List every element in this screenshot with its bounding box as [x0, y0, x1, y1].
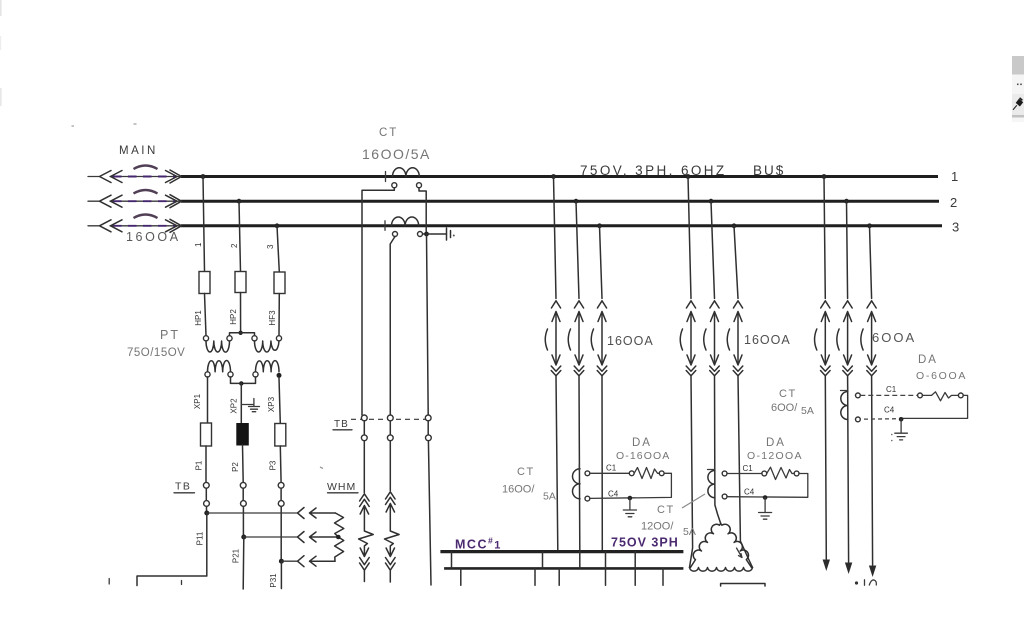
terminal TB P3 upper — [278, 482, 284, 488]
label CT top — [379, 127, 398, 139]
label P21 — [232, 548, 241, 563]
label WHM — [327, 481, 358, 493]
svg-text:CT: CT — [657, 504, 675, 516]
svg-text:O-16OOA: O-16OOA — [616, 450, 670, 462]
label C1 DA1 — [606, 464, 617, 473]
cut mark bottom left — [109, 579, 181, 585]
svg-text:CT: CT — [517, 466, 535, 478]
terminal DA1 left — [629, 471, 634, 476]
transformer delta winding right side — [721, 524, 752, 568]
svg-text:DA: DA — [632, 437, 652, 449]
wire XP2 — [240, 383, 242, 423]
terminal TB P1 upper — [203, 482, 209, 488]
node PT primary center junction — [238, 331, 242, 335]
wire CT common down — [427, 234, 429, 415]
svg-text:5A: 5A — [801, 405, 814, 417]
wire P31 down — [280, 561, 282, 588]
svg-text:HP1: HP1 — [194, 310, 203, 326]
svg-text:MAIN: MAIN — [119, 145, 158, 157]
svg-text:O-6OOA: O-6OOA — [916, 370, 967, 382]
bus number 1 — [951, 169, 958, 184]
tap label 1 — [194, 242, 203, 247]
svg-text:C4: C4 — [608, 490, 619, 499]
MCC bus upper — [440, 550, 683, 553]
svg-text:TB: TB — [175, 481, 191, 493]
wire feeder3 phase1 upper — [824, 177, 825, 299]
CT U1 polarity tick — [385, 172, 387, 182]
wire feeder2 phase1 upper — [688, 177, 691, 299]
node DA2 ground junction — [763, 495, 768, 500]
node CT common junction — [423, 232, 429, 237]
leader line CT 1200 — [682, 494, 705, 508]
incoming main row 1 left chevrons — [100, 171, 123, 183]
incoming main row 1 right chevrons — [166, 170, 182, 183]
incoming main row 3 wire — [88, 225, 181, 227]
svg-text:C4: C4 — [884, 406, 895, 415]
CT U3 polarity tick — [578, 465, 580, 471]
terminal CT U3 C4 — [585, 496, 590, 501]
terminal TB C2 upper — [387, 415, 393, 421]
terminal TB P3 lower — [278, 501, 284, 507]
CT U4 polarity tick — [708, 466, 715, 470]
svg-text:P21: P21 — [232, 548, 241, 563]
terminal TB C2 lower — [387, 435, 393, 441]
node feeder2 phase2 tap — [709, 199, 714, 204]
wire P11 to WHM potential — [207, 512, 298, 514]
terminal CT U5 C4 — [856, 417, 861, 422]
svg-text:TB: TB — [334, 419, 349, 430]
CT U1 primary coil on bus1 — [393, 168, 420, 177]
label C1 DA2 — [743, 464, 754, 473]
label 750/150V — [127, 347, 185, 359]
svg-text:2: 2 — [230, 243, 239, 248]
wire feeder1 phase3 upper — [600, 226, 603, 299]
svg-text:CT: CT — [379, 127, 398, 139]
label feeder1 1600A — [607, 334, 654, 348]
wire feeder3 phase1 lower with arrow — [823, 376, 830, 571]
svg-text:CT: CT — [779, 388, 797, 400]
wire feeder1 phase2 upper — [576, 201, 579, 298]
equipment box below delta — [721, 584, 765, 587]
svg-text:PT: PT — [160, 328, 180, 342]
label 750V 3PH — [611, 536, 679, 550]
MCC riser 2 — [542, 552, 544, 569]
label MAIN — [119, 145, 158, 157]
wire DA3 C1 dashed — [860, 394, 917, 396]
ground mark CT common — [447, 228, 455, 240]
wire DA3 loop — [860, 395, 967, 419]
WHM current coil 2 — [385, 492, 400, 582]
MCC riser 1 — [451, 552, 453, 569]
wire feeder1 phase1 upper — [554, 177, 557, 299]
svg-text:75OV 3PH: 75OV 3PH — [611, 536, 679, 550]
WHM current coil 1 — [359, 494, 374, 582]
wire WHM current coil 2 upper — [389, 441, 391, 491]
wire feeder1 phase1 lower — [556, 376, 558, 551]
CT U4 coil 1200/5A — [708, 471, 715, 498]
terminal X2 PT winding A — [228, 372, 233, 377]
svg-text:XP1: XP1 — [193, 393, 202, 409]
wire feeder3 phase2 lower with arrow — [845, 376, 852, 574]
svg-text:MCC#1: MCC#1 — [455, 536, 502, 552]
wire feeder2 phase3 upper — [734, 226, 738, 299]
MCC feeder stub 5 — [634, 568, 636, 585]
ui divider line — [1012, 115, 1024, 122]
fuse HP1 — [199, 272, 210, 294]
svg-text:1: 1 — [194, 242, 203, 247]
incoming main row 2 left chevrons — [100, 195, 123, 207]
wire bus2 to fuse HP2 — [239, 201, 241, 271]
terminal CT U5 C1 — [856, 393, 861, 398]
svg-text:3: 3 — [952, 220, 959, 235]
label C4 DA3 — [884, 406, 895, 415]
arrow pair WHM potential 3 — [298, 556, 336, 567]
wire DA2 C1 — [727, 473, 762, 475]
wire fuse P1 to TB — [205, 446, 207, 482]
resistor DA1 element — [634, 468, 659, 479]
wire fuse HP3 to PT primary — [278, 294, 280, 336]
ui panel light strip with dots — [1012, 75, 1024, 95]
label XP2 — [230, 398, 239, 414]
arrow pair WHM potential 2 — [298, 532, 339, 543]
terminal H2 PT winding A — [227, 336, 232, 341]
fuse HP3 — [274, 272, 285, 294]
label P11 — [196, 531, 205, 545]
cut marks bottom right — [855, 580, 876, 585]
node DA3 ground junction — [899, 417, 904, 422]
arrow pair WHM potential 1 — [298, 508, 336, 519]
label 5A 600 — [801, 405, 814, 417]
label DA3 range — [916, 370, 967, 382]
paper speck left — [72, 124, 137, 126]
PT primary coil B — [255, 341, 280, 352]
label DA2 range — [747, 450, 803, 462]
terminal CT U2 left — [393, 232, 398, 237]
wire feeder2 phase1 lower — [690, 376, 693, 568]
svg-text:DA: DA — [766, 437, 786, 449]
svg-text:16OO/5A: 16OO/5A — [362, 146, 431, 162]
wire PT primary center tee — [230, 333, 255, 336]
MCC feeder stub 3 — [558, 568, 560, 585]
terminal H2 PT winding B — [276, 336, 281, 341]
node feeder1 phase1 tap — [551, 174, 556, 179]
bus label 750V 3PH 60HZ BUS — [580, 163, 785, 178]
label HP1 — [194, 310, 203, 326]
incoming main row 2 wire — [88, 200, 181, 202]
terminal DA3 right — [958, 393, 963, 398]
terminal X1 PT winding B — [253, 372, 258, 377]
svg-text:1: 1 — [951, 169, 958, 184]
svg-text:WHM: WHM — [327, 481, 356, 493]
node feeder3 phase2 tap — [844, 199, 849, 204]
svg-text:3: 3 — [266, 244, 275, 249]
terminal CT U4 C1 — [722, 471, 727, 476]
terminal DA2 left — [762, 471, 767, 476]
fuse HP2 — [235, 272, 246, 293]
incoming main row 2 purple dashes — [113, 200, 177, 202]
wire TB P3 link — [280, 488, 282, 500]
wire feeder1 phase2 lower — [578, 376, 581, 551]
node X2 PT winding B junction — [277, 373, 282, 378]
svg-text:16OOA: 16OOA — [744, 333, 791, 347]
terminal TB C1 lower — [361, 435, 367, 441]
wire bus1 to fuse HP1 — [203, 177, 205, 272]
incoming main row 3 purple dashes — [113, 225, 177, 227]
label 1600/5A top — [362, 146, 431, 162]
wire CT common to ground mark — [427, 233, 447, 235]
wire fuse HP2 to PT primary center — [240, 293, 242, 333]
svg-text:75O/15OV: 75O/15OV — [127, 347, 185, 359]
label HP3 — [268, 310, 277, 326]
MCC feeder stub 4 — [605, 568, 607, 585]
PT secondary coil A — [208, 361, 231, 372]
label DA1 range — [616, 450, 670, 462]
breaker feeder2 phase2 — [704, 301, 720, 376]
label TB right — [333, 419, 352, 430]
label PT — [160, 328, 180, 342]
label MCC#1 — [455, 536, 502, 552]
label XP3 — [267, 396, 276, 412]
svg-text:16OOA: 16OOA — [126, 230, 181, 244]
terminal CT U4 C4 — [722, 494, 727, 499]
ground DA3 — [891, 419, 907, 441]
incoming main row 3 left chevrons — [100, 220, 123, 232]
node feeder2 phase3 tap — [732, 223, 737, 228]
svg-text:P31: P31 — [269, 573, 278, 588]
terminal DA1 right — [659, 471, 664, 476]
CT U2 primary coil on bus3 — [392, 217, 419, 226]
svg-text:P2: P2 — [231, 462, 240, 472]
breaker feeder2 phase3 — [727, 301, 743, 376]
PT primary coil A — [206, 341, 230, 352]
label P2 — [231, 462, 240, 472]
svg-text:XP2: XP2 — [230, 398, 239, 414]
wire XP3 — [279, 378, 280, 424]
label feeder2 1600A — [744, 333, 791, 347]
wire feeder1 phase3 lower — [601, 376, 603, 551]
bus number 2 — [950, 195, 957, 210]
terminal CT U2 right — [418, 232, 423, 237]
wire TB C3 down — [428, 441, 431, 585]
breaker feeder1 phase1 — [545, 301, 561, 376]
breaker feeder1 phase3 — [591, 301, 607, 376]
bus number 3 — [952, 220, 959, 235]
fuse P3 — [275, 424, 286, 447]
node tap phase2 PT — [237, 199, 242, 204]
svg-text:C4: C4 — [744, 488, 755, 497]
svg-text:16OOA: 16OOA — [607, 334, 654, 348]
wire CT U1 left secondary — [362, 188, 394, 415]
terminal CT U3 C1 — [585, 471, 590, 476]
svg-text:P1: P1 — [195, 460, 204, 470]
breaker feeder2 phase1 — [680, 301, 696, 376]
tap label 3 — [266, 244, 275, 249]
fuse P2 filled — [237, 424, 249, 446]
wire P21 down — [242, 537, 245, 589]
ground DA1 — [623, 498, 636, 517]
wire TB C1 link — [363, 421, 365, 435]
breaker feeder3 phase3 — [861, 301, 877, 376]
CT U5 coil 600/5A — [841, 392, 848, 420]
fuse P1 — [201, 423, 212, 446]
wire P31 to WHM potential — [281, 560, 297, 562]
incoming main row 1 arc — [134, 166, 158, 170]
wire DA1 C1 — [590, 472, 629, 474]
label CT 600 — [779, 388, 797, 400]
incoming main row 1 wire — [88, 176, 181, 178]
ui left edge faint — [0, 0, 2, 106]
terminal TB C1 upper — [361, 415, 367, 421]
label DA3 — [918, 354, 938, 366]
incoming main row 3 arc — [134, 215, 158, 219]
ui pin button — [1012, 94, 1024, 115]
label DA2 — [766, 437, 786, 449]
node DA1 ground junction — [628, 496, 633, 501]
wire fuse P2 to TB — [242, 445, 245, 482]
wire P21 to WHM potential — [244, 536, 298, 538]
label CT 1200 — [657, 504, 675, 516]
breaker feeder3 phase2 — [837, 301, 853, 376]
CT U2 polarity tick — [384, 221, 386, 231]
breaker feeder1 phase2 — [568, 301, 584, 376]
incoming main row 2 right chevrons — [166, 195, 182, 208]
node feeder1 phase3 tap — [597, 223, 602, 228]
svg-text:12OO/: 12OO/ — [641, 521, 674, 533]
node P21 junction — [241, 506, 246, 539]
terminal H1 PT winding A — [203, 336, 208, 341]
MCC feeder stub 6 — [662, 568, 664, 585]
node feeder1 phase2 tap — [574, 199, 579, 204]
node feeder3 phase1 tap — [822, 174, 827, 179]
CT U5 polarity tick — [841, 387, 848, 391]
MCC feeder stub 2 — [534, 568, 536, 585]
wire P11 down elbow — [137, 513, 207, 586]
svg-text:DA: DA — [918, 354, 938, 366]
label 1600A main — [126, 230, 181, 244]
wire CT U1 right secondary — [419, 188, 426, 232]
label XP1 — [193, 393, 202, 409]
wire fuse P3 to TB — [279, 446, 282, 482]
WHM potential zigzag chain — [335, 513, 344, 561]
terminal CT U1 right — [417, 183, 422, 188]
wire feeder2 phase2 upper — [711, 201, 715, 298]
breaker feeder3 phase1 — [815, 301, 831, 376]
transformer delta winding left side — [690, 524, 720, 568]
ui scrollbar block right edge — [1012, 56, 1024, 75]
MCC feeder stub 1 — [460, 568, 462, 585]
incoming main row 1 purple dashes — [113, 176, 177, 178]
incoming main row 2 arc — [134, 190, 158, 194]
wire PT secondary center tee — [231, 377, 256, 383]
node PT secondary center junction — [239, 381, 243, 385]
bus line 2 — [181, 200, 939, 203]
svg-text:C1: C1 — [606, 464, 617, 473]
svg-text:2: 2 — [950, 195, 957, 210]
wire feeder2 phase2 lower — [715, 376, 721, 524]
node feeder3 phase3 tap — [867, 223, 872, 228]
wire fuse HP1 to PT primary — [205, 294, 207, 336]
wire DA1 loop — [590, 473, 672, 498]
dashed TB link line — [351, 418, 426, 420]
svg-text:75OV, 3PH, 6OHZ: 75OV, 3PH, 6OHZ — [580, 163, 727, 178]
node P31 junction — [279, 506, 284, 563]
label P31 — [269, 573, 278, 588]
incoming main row 3 right chevrons — [166, 219, 182, 232]
wire feeder3 phase3 upper — [870, 226, 872, 299]
label C4 DA1 — [608, 490, 619, 499]
terminal TB C3 upper — [425, 415, 431, 421]
label 5A mid — [543, 491, 556, 503]
wire TB C3 link — [427, 421, 429, 435]
CT U3 coil 1600/5A — [573, 469, 581, 499]
label HP2 — [229, 309, 238, 325]
delta winding arrow mark — [737, 548, 743, 558]
svg-text:P11: P11 — [196, 531, 205, 545]
label C4 DA2 — [744, 488, 755, 497]
bus line 3 — [181, 224, 942, 227]
wire TB P2 link — [242, 488, 244, 500]
MCC bus lower — [444, 567, 683, 570]
MCC riser 5 — [634, 552, 636, 569]
wire TB P1 link — [205, 488, 207, 500]
stray pencil mark — [320, 467, 323, 469]
svg-text:P3: P3 — [269, 460, 278, 470]
svg-text:16OO/: 16OO/ — [502, 484, 535, 496]
transformer delta winding bottom side — [690, 568, 753, 572]
label 5A 1200 — [683, 526, 696, 538]
node tap phase3 PT — [275, 223, 280, 228]
resistor DA2 element — [767, 467, 795, 479]
wire CT U2 left secondary down — [390, 237, 395, 416]
ground DA2 — [759, 498, 772, 520]
wire DA2 loop — [727, 474, 808, 498]
label feeder3 600A — [872, 330, 916, 345]
svg-text:HP2: HP2 — [229, 309, 238, 325]
node feeder2 phase1 tap — [686, 174, 691, 179]
label CT mid — [517, 466, 535, 478]
bus line 1 — [181, 175, 938, 178]
wire feeder3 phase3 lower with arrow — [869, 376, 876, 577]
svg-text:C1: C1 — [743, 464, 754, 473]
svg-text:5A: 5A — [543, 491, 556, 503]
terminal DA2 right — [794, 471, 799, 476]
label 600/ — [771, 402, 798, 414]
tap label 2 — [230, 243, 239, 248]
terminal H1 PT winding B — [252, 336, 257, 341]
wire XP1 — [207, 377, 209, 423]
label P1 — [195, 460, 204, 470]
terminal DA3 left — [918, 393, 923, 398]
ground PT secondary — [241, 399, 259, 412]
label TB left — [174, 481, 195, 493]
node tap phase1 PT — [201, 174, 206, 179]
terminal TB P2 lower — [241, 501, 247, 507]
node P11 junction — [204, 506, 209, 515]
terminal TB P1 lower — [204, 501, 210, 507]
svg-text:BU$: BU$ — [753, 163, 785, 178]
svg-text:C1: C1 — [886, 385, 897, 394]
label 1600/ mid — [502, 484, 535, 496]
wire feeder2 phase3 lower — [738, 376, 753, 568]
resistor DA3 element — [922, 392, 958, 401]
PT secondary coil B — [256, 361, 279, 372]
terminal TB C3 lower — [426, 435, 432, 441]
label DA1 — [632, 437, 652, 449]
terminal X1 PT winding A — [205, 372, 210, 377]
label P3 — [269, 460, 278, 470]
MCC riser 4 — [605, 552, 607, 569]
MCC riser 3 — [579, 552, 581, 569]
